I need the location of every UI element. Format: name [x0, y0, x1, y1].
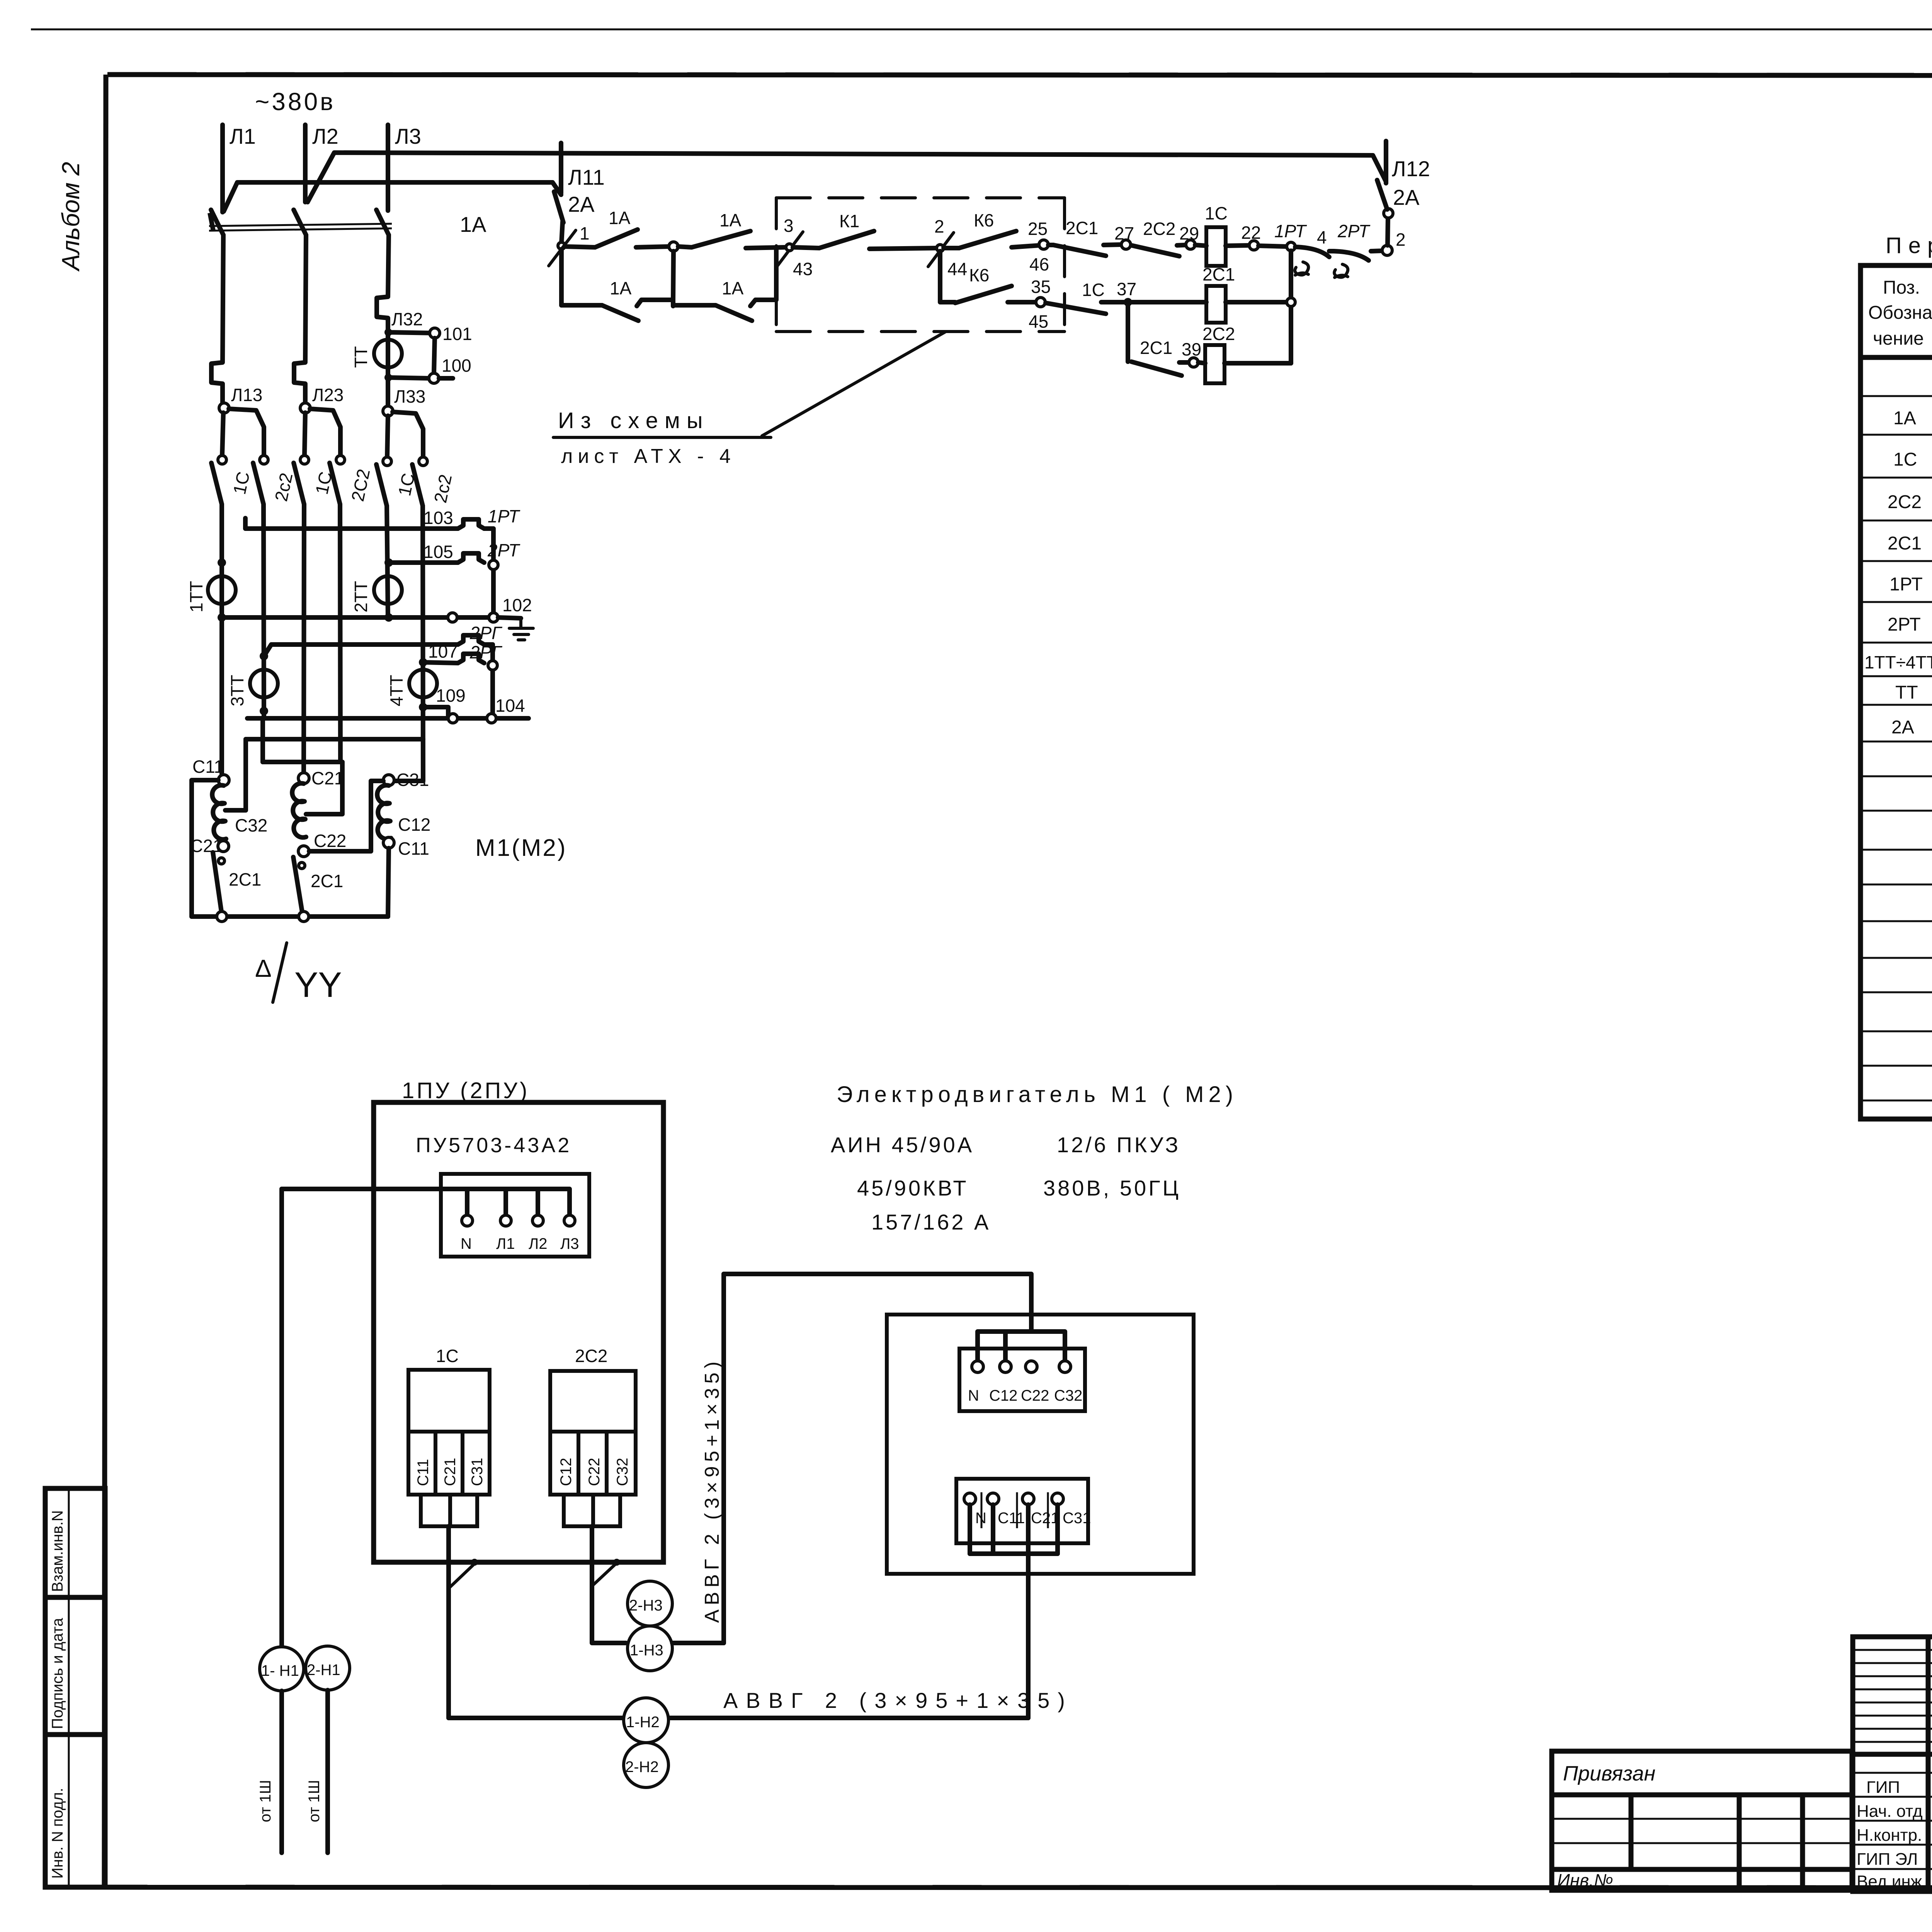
contact blade 1C ph1	[211, 463, 222, 504]
inner frame bottom	[44, 1887, 1932, 1888]
top bus from L2	[308, 153, 1386, 202]
svg-text:1ТТ÷4ТТ: 1ТТ÷4ТТ	[1864, 652, 1932, 672]
svg-text:1А: 1А	[610, 278, 632, 298]
node L33	[383, 406, 393, 416]
contact terminal c2b	[336, 456, 345, 464]
svg-text:Л11: Л11	[568, 165, 605, 189]
svg-text:С32: С32	[1054, 1387, 1082, 1404]
node 2 mid slash	[928, 233, 954, 267]
svg-text:37: 37	[1117, 279, 1136, 299]
contact blade 2C2 ph1	[253, 463, 264, 504]
privyazan grid col 2	[1737, 1795, 1742, 1890]
svg-text:1РТ: 1РТ	[1889, 574, 1923, 595]
bypass wire c	[673, 303, 716, 308]
svg-text:3: 3	[784, 216, 794, 236]
contact blade 2C2 ph3	[412, 464, 423, 506]
contact K6 lower blade	[955, 286, 1012, 303]
row line 4540	[1853, 1752, 1932, 1757]
lower terminal C11 circle	[987, 1493, 999, 1505]
TT secondary vertical	[434, 338, 435, 373]
svg-text:1С: 1С	[1893, 449, 1917, 470]
svg-text:2-Н2: 2-Н2	[625, 1759, 659, 1776]
svg-text:2РТ: 2РТ	[1888, 614, 1921, 635]
svg-text:157/162 А: 157/162 А	[871, 1210, 991, 1234]
thin grid rows upper	[1853, 1649, 1932, 1651]
svg-text:К6: К6	[974, 210, 994, 230]
svg-text:1А: 1А	[1893, 408, 1916, 429]
motor outer box	[887, 1315, 1194, 1574]
svg-text:45: 45	[1029, 311, 1048, 332]
svg-text:102: 102	[502, 595, 532, 615]
return vertical	[1289, 251, 1293, 363]
coil 1C rect	[1206, 227, 1226, 266]
terminal circle L1	[500, 1215, 511, 1226]
terminal 29 circle	[1186, 240, 1195, 249]
svg-text:АВВГ 2 (3×95+1×35): АВВГ 2 (3×95+1×35)	[701, 1357, 723, 1623]
leader line to dashed box	[762, 332, 946, 436]
svg-text:12/6 ПКУЗ: 12/6 ПКУЗ	[1057, 1133, 1180, 1157]
svg-text:103: 103	[423, 508, 453, 528]
control line segment g	[944, 246, 959, 250]
stub right of 100	[439, 376, 453, 381]
contact blade 2C2 ph2	[330, 463, 340, 504]
delta slash	[273, 943, 287, 1002]
circle 2-N2	[624, 1743, 668, 1787]
wire 107 end circle	[488, 661, 497, 670]
contact K6 upper blade	[959, 231, 1016, 248]
circle 1-N1	[260, 1647, 304, 1691]
svg-text:Л3: Л3	[560, 1235, 579, 1252]
svg-text:2С1: 2С1	[1888, 533, 1922, 554]
svg-text:39: 39	[1182, 339, 1201, 359]
svg-text:Л33: Л33	[394, 386, 425, 406]
svg-text:2А: 2А	[1393, 185, 1420, 209]
winding2 bottom terminal C22	[298, 846, 309, 857]
leg C phase2 1C	[304, 504, 304, 774]
phase1 left leg upper	[222, 413, 223, 455]
svg-text:2С1: 2С1	[1202, 264, 1235, 284]
terminal 39 circle	[1189, 358, 1198, 367]
left margin stamp divider 1	[45, 1595, 105, 1600]
lower jumper C11 stub	[991, 1505, 995, 1554]
contact terminal c2a	[300, 456, 309, 464]
svg-text:1РТ: 1РТ	[1274, 221, 1307, 241]
svg-text:чение: чение	[1873, 328, 1924, 349]
branch3 blade 2C1	[1131, 362, 1182, 376]
privyazan grid col 3	[1800, 1795, 1805, 1890]
node 3 circle	[786, 244, 793, 251]
svg-text:ГИП: ГИП	[1866, 1778, 1900, 1797]
lower jumper C31 stub	[1055, 1505, 1060, 1554]
breaker 2A blade left	[554, 192, 563, 223]
2A lower terminal circle	[1384, 209, 1393, 218]
svg-text:С21: С21	[442, 1458, 459, 1486]
terminal C11 top circle	[218, 775, 229, 786]
2C2 bus dot	[613, 1559, 620, 1566]
svg-text:46: 46	[1029, 254, 1049, 274]
heater 2RG1 bump	[458, 635, 484, 645]
cross line 1913	[246, 737, 423, 742]
privyazan block border	[1552, 1751, 1852, 1890]
breaker linkage bar top	[209, 224, 392, 226]
svg-text:С21: С21	[1031, 1510, 1059, 1527]
svg-text:Л1: Л1	[230, 124, 256, 148]
terminal 35-45 circle	[1036, 298, 1045, 307]
2C2 cell divider b	[605, 1432, 609, 1495]
svg-text:К6: К6	[969, 265, 989, 285]
phase3 right branch	[393, 412, 423, 457]
panel terminal box	[441, 1174, 589, 1257]
relay return vertical 2	[490, 645, 495, 718]
wire coil to 22	[1226, 245, 1249, 246]
control line segment c	[678, 247, 692, 247]
svg-text:Л1: Л1	[496, 1235, 515, 1252]
svg-text:N: N	[461, 1235, 472, 1252]
upper terminal C22 circle	[1026, 1361, 1037, 1372]
svg-text:С32: С32	[235, 815, 267, 835]
winding3 down wire	[388, 848, 389, 917]
privyazan grid col 1	[1629, 1795, 1634, 1869]
contact 2RT curve	[1334, 251, 1369, 260]
dashed box left	[775, 198, 778, 332]
node 3 slash	[777, 232, 803, 266]
svg-text:101: 101	[442, 324, 472, 344]
svg-text:2С1: 2С1	[311, 871, 343, 891]
left margin stamp box	[45, 1488, 105, 1887]
bypass contact 1A b2 blade	[716, 305, 752, 321]
svg-text:27: 27	[1114, 223, 1134, 243]
node L23	[300, 403, 310, 413]
node 22 circle	[1249, 241, 1259, 250]
svg-text:2С1: 2С1	[1066, 218, 1098, 238]
1C down wire	[446, 1526, 451, 1718]
svg-text:105: 105	[423, 542, 453, 562]
left bracket C11	[192, 780, 218, 917]
svg-text:2РТ: 2РТ	[1337, 221, 1371, 241]
wire 104 line	[247, 716, 529, 721]
wire 29 to coil	[1195, 245, 1206, 246]
terminal 100	[429, 373, 439, 383]
contact blade 1C ph2	[294, 463, 304, 504]
bypass wire b	[637, 300, 673, 306]
svg-text:1А: 1А	[719, 210, 742, 230]
contact 1A n1 blade	[595, 230, 638, 247]
C21 wire down	[1026, 1505, 1031, 1718]
svg-text:29: 29	[1179, 223, 1199, 243]
2C2 down wire	[592, 1526, 626, 1643]
2TT bottom dot	[384, 613, 393, 622]
wire 105 line	[389, 560, 458, 565]
second bus from L1	[224, 182, 561, 211]
svg-text:2С2: 2С2	[1202, 324, 1235, 344]
winding 3 coil	[377, 785, 391, 839]
TT tap upper node	[384, 328, 392, 336]
riser winding2 tap	[306, 762, 342, 814]
svg-text:С22: С22	[314, 831, 346, 851]
left margin stamp divider 2	[45, 1732, 105, 1737]
svg-text:2С2: 2С2	[1888, 492, 1922, 512]
contactor 2C2 strip line	[550, 1430, 636, 1434]
svg-text:С21: С21	[311, 768, 344, 788]
svg-text:С22: С22	[1021, 1387, 1049, 1404]
contact 2C2 blade	[1131, 245, 1179, 256]
dashed box right	[1063, 198, 1066, 332]
table header bottom line	[1861, 355, 1932, 360]
svg-text:ТТ: ТТ	[351, 346, 371, 368]
heater 2RT bump	[458, 553, 484, 563]
svg-text:~380в: ~380в	[255, 88, 335, 116]
1TT top dot	[218, 558, 226, 567]
2RT heater curl	[1334, 264, 1348, 277]
svg-text:1- Н1: 1- Н1	[261, 1662, 299, 1679]
svg-text:2А: 2А	[568, 192, 595, 216]
inner frame left	[104, 75, 106, 1888]
svg-text:АВВГ 2 (3×95+1×35): АВВГ 2 (3×95+1×35)	[723, 1688, 1073, 1713]
wire 105 end circle	[489, 560, 498, 570]
branch3 wire a	[1179, 360, 1189, 365]
wire node to 100	[388, 378, 429, 378]
svg-text:Л32: Л32	[391, 309, 423, 329]
circle 2-N1	[306, 1646, 350, 1690]
pin N	[465, 1189, 469, 1215]
node 37	[1124, 298, 1132, 306]
svg-text:Л23: Л23	[312, 385, 344, 405]
branch2 wire b	[1101, 300, 1124, 304]
svg-text:Инв.№: Инв.№	[1557, 1870, 1613, 1890]
lower block divider b	[1016, 1492, 1018, 1528]
4TT bottom dot	[419, 703, 427, 711]
contact blade 1C ph3	[376, 464, 387, 506]
phase2 right branch	[310, 409, 340, 455]
svg-text:Нач. отд: Нач. отд	[1857, 1802, 1923, 1821]
incoming wire to terminals	[282, 1189, 570, 1216]
heater 1RT bump	[458, 519, 484, 529]
wire node to 101	[388, 332, 435, 333]
control line segment d	[746, 247, 785, 248]
motor lower terminal block	[956, 1479, 1088, 1543]
1C cell divider b	[461, 1432, 464, 1495]
ground stub	[498, 617, 521, 618]
table outer border	[1861, 265, 1932, 1119]
wire 107 line	[423, 662, 458, 663]
control line segment h	[1012, 245, 1039, 247]
svg-text:2ТТ: 2ТТ	[351, 581, 371, 612]
svg-text:2: 2	[934, 216, 944, 236]
node 1 circle	[558, 242, 565, 249]
terminal circle L3	[564, 1215, 575, 1226]
svg-text:от 1Ш: от 1Ш	[306, 1780, 323, 1822]
coil 2C1 rect	[1206, 286, 1226, 323]
svg-text:1С: 1С	[436, 1346, 459, 1366]
iz skhemy underline	[553, 436, 771, 439]
node 1 cross slash	[549, 230, 576, 266]
2TT top dot	[384, 558, 393, 567]
1C cable slash	[450, 1564, 474, 1587]
svg-text:35: 35	[1031, 277, 1051, 297]
104 circle a	[448, 714, 457, 723]
leg F phase3 2C2	[423, 506, 423, 781]
svg-text:1ПУ (2ПУ): 1ПУ (2ПУ)	[402, 1078, 529, 1103]
svg-text:Л12: Л12	[1392, 156, 1430, 181]
branch2 drop from node2	[940, 251, 955, 302]
terminal circle mid	[669, 242, 678, 251]
pole 2 wire with jog	[294, 235, 306, 408]
phase1 right branch	[229, 409, 264, 455]
bypass vertical circle drop	[673, 251, 673, 301]
phase L3 stub	[386, 125, 390, 211]
2C2 cell divider a	[577, 1432, 580, 1495]
svg-text:С31: С31	[1063, 1510, 1091, 1527]
contact terminal c1a	[218, 456, 226, 464]
panel big box	[374, 1102, 663, 1562]
svg-text:45/90КВТ: 45/90КВТ	[857, 1176, 969, 1200]
svg-text:Перечень элементов принципиа: Перечень элементов принципиальной схемы	[1886, 233, 1932, 258]
lower jumper N stub	[968, 1505, 972, 1554]
2C2 cable slash	[594, 1563, 617, 1585]
3TT bottom dot	[260, 707, 268, 715]
winding 1 coil	[212, 785, 226, 839]
terminal circle N	[462, 1215, 473, 1226]
TT tap lower node	[384, 374, 392, 381]
phase L1 stub	[220, 125, 225, 212]
svg-text:С12: С12	[558, 1458, 575, 1486]
svg-text:С31: С31	[469, 1458, 486, 1486]
svg-text:Л13: Л13	[231, 385, 262, 405]
104 circle b	[487, 714, 496, 723]
branch2 wire a	[1008, 300, 1036, 304]
svg-text:Поз.: Поз.	[1883, 277, 1920, 298]
svg-text:2С2: 2С2	[1143, 219, 1175, 239]
svg-text:Н.контр.: Н.контр.	[1857, 1826, 1922, 1845]
leg D phase2 2C2	[340, 504, 340, 762]
breaker 1A pole 2 blade	[294, 210, 306, 235]
svg-text:Альбом 2: Альбом 2	[57, 162, 85, 272]
leg E phase3 1C	[387, 506, 388, 617]
contact 2C1 m1 hook	[218, 858, 224, 864]
svg-text:1ТТ: 1ТТ	[186, 581, 206, 612]
wire 1RT to 4	[1329, 249, 1334, 253]
winding3 bottom terminal C11	[383, 837, 394, 848]
motor bottom bus	[192, 914, 388, 919]
branch3 wire c	[1225, 361, 1291, 366]
terminal C31 circle	[383, 775, 394, 786]
svg-text:Взам.инв.N: Взам.инв.N	[49, 1510, 66, 1592]
phase L2 stub	[303, 125, 308, 202]
contact terminal c3a	[383, 457, 391, 466]
svg-text:ПУ5703-43А2: ПУ5703-43А2	[416, 1134, 571, 1157]
L12 vertical	[1384, 141, 1388, 183]
contact terminal c1b	[260, 456, 268, 464]
transformer 4TT circle	[409, 670, 437, 697]
lower block divider a	[981, 1492, 983, 1528]
control line segment a	[565, 247, 595, 247]
svg-text:1С: 1С	[1082, 280, 1105, 300]
contact 2C1 m2 blade	[293, 857, 303, 914]
1C bus dot	[471, 1559, 478, 1566]
transformer 1TT circle	[208, 576, 236, 604]
signature row lines	[1853, 1772, 1932, 1774]
terminal C21 mid circle	[298, 773, 309, 784]
2C2 lug b	[593, 1495, 620, 1526]
sheet top edge line	[31, 29, 1932, 31]
privyazan grid row 3	[1552, 1867, 1852, 1872]
branch3 wire b	[1198, 362, 1205, 363]
svg-text:Δ: Δ	[255, 954, 272, 982]
breaker pole 1 flag	[210, 213, 213, 231]
terminal 25 circle	[1039, 240, 1048, 249]
4TT top dot	[419, 658, 427, 667]
contactor 1C box	[408, 1370, 490, 1495]
left margin stamp divider column	[68, 1488, 70, 1887]
transformer 2TT circle	[374, 576, 402, 604]
transformer 3TT circle	[250, 670, 278, 697]
svg-text:Л3: Л3	[395, 124, 421, 148]
dashed box bottom	[776, 330, 1065, 333]
1C lug a	[421, 1495, 450, 1526]
2C2 lug a	[564, 1495, 593, 1526]
wire 103 line	[245, 518, 458, 529]
upper terminal C12 circle	[1000, 1361, 1011, 1372]
svg-text:3ТТ: 3ТТ	[227, 675, 247, 706]
svg-text:44: 44	[947, 259, 967, 279]
top band lower line	[107, 75, 1932, 76]
svg-text:43: 43	[793, 259, 813, 279]
wire 2RG upper end	[484, 642, 493, 647]
node 2 mid circle	[937, 245, 944, 252]
branch2 wire d	[1226, 300, 1287, 304]
vertical node2 to 2A	[1388, 218, 1388, 245]
wire below 2-N1	[325, 1690, 330, 1853]
svg-text:1РТ: 1РТ	[488, 506, 520, 526]
control line segment i	[1048, 243, 1053, 247]
svg-text:С11: С11	[998, 1510, 1025, 1527]
bus circle a	[217, 912, 227, 922]
svg-text:2С2: 2С2	[575, 1346, 607, 1366]
control line segment j	[1104, 245, 1121, 245]
wire 2RT to node2	[1371, 251, 1383, 251]
vertical from 37	[1126, 306, 1130, 362]
svg-text:Вед.инж: Вед.инж	[1857, 1872, 1922, 1891]
signature grid column 1	[1926, 1637, 1931, 1891]
contact 2C1 blade	[1053, 245, 1106, 256]
lower block divider c	[1047, 1492, 1049, 1528]
node 2 right circle	[1382, 245, 1392, 255]
circle 1-N2	[624, 1698, 668, 1743]
1C lug b	[450, 1495, 477, 1526]
lower terminal C21 circle	[1022, 1493, 1034, 1505]
breaker 1A pole 3 blade	[376, 210, 389, 235]
svg-text:Инв. N подл.: Инв. N подл.	[49, 1788, 66, 1879]
wire 102 line	[222, 615, 489, 620]
lower terminal N circle	[964, 1493, 976, 1505]
contact K1 blade	[819, 231, 874, 248]
contact 1RT curve	[1295, 247, 1329, 257]
node L13	[219, 403, 229, 413]
table row lines	[1861, 357, 1932, 359]
svg-text:2С1: 2С1	[1140, 338, 1172, 358]
2A right blade	[1377, 180, 1387, 209]
coil 2C2 rect	[1205, 345, 1225, 383]
control line segment b	[636, 247, 669, 247]
phase3 left leg upper	[387, 416, 388, 457]
wire 22 to T	[1259, 246, 1287, 247]
contact terminal c3b	[419, 457, 427, 466]
transformer TT circle	[374, 340, 402, 367]
contactor 2C2 box	[550, 1371, 636, 1495]
svg-text:4ТТ: 4ТТ	[386, 675, 406, 706]
contactor 1C strip line	[408, 1430, 490, 1434]
circle 2-N3	[628, 1581, 672, 1626]
